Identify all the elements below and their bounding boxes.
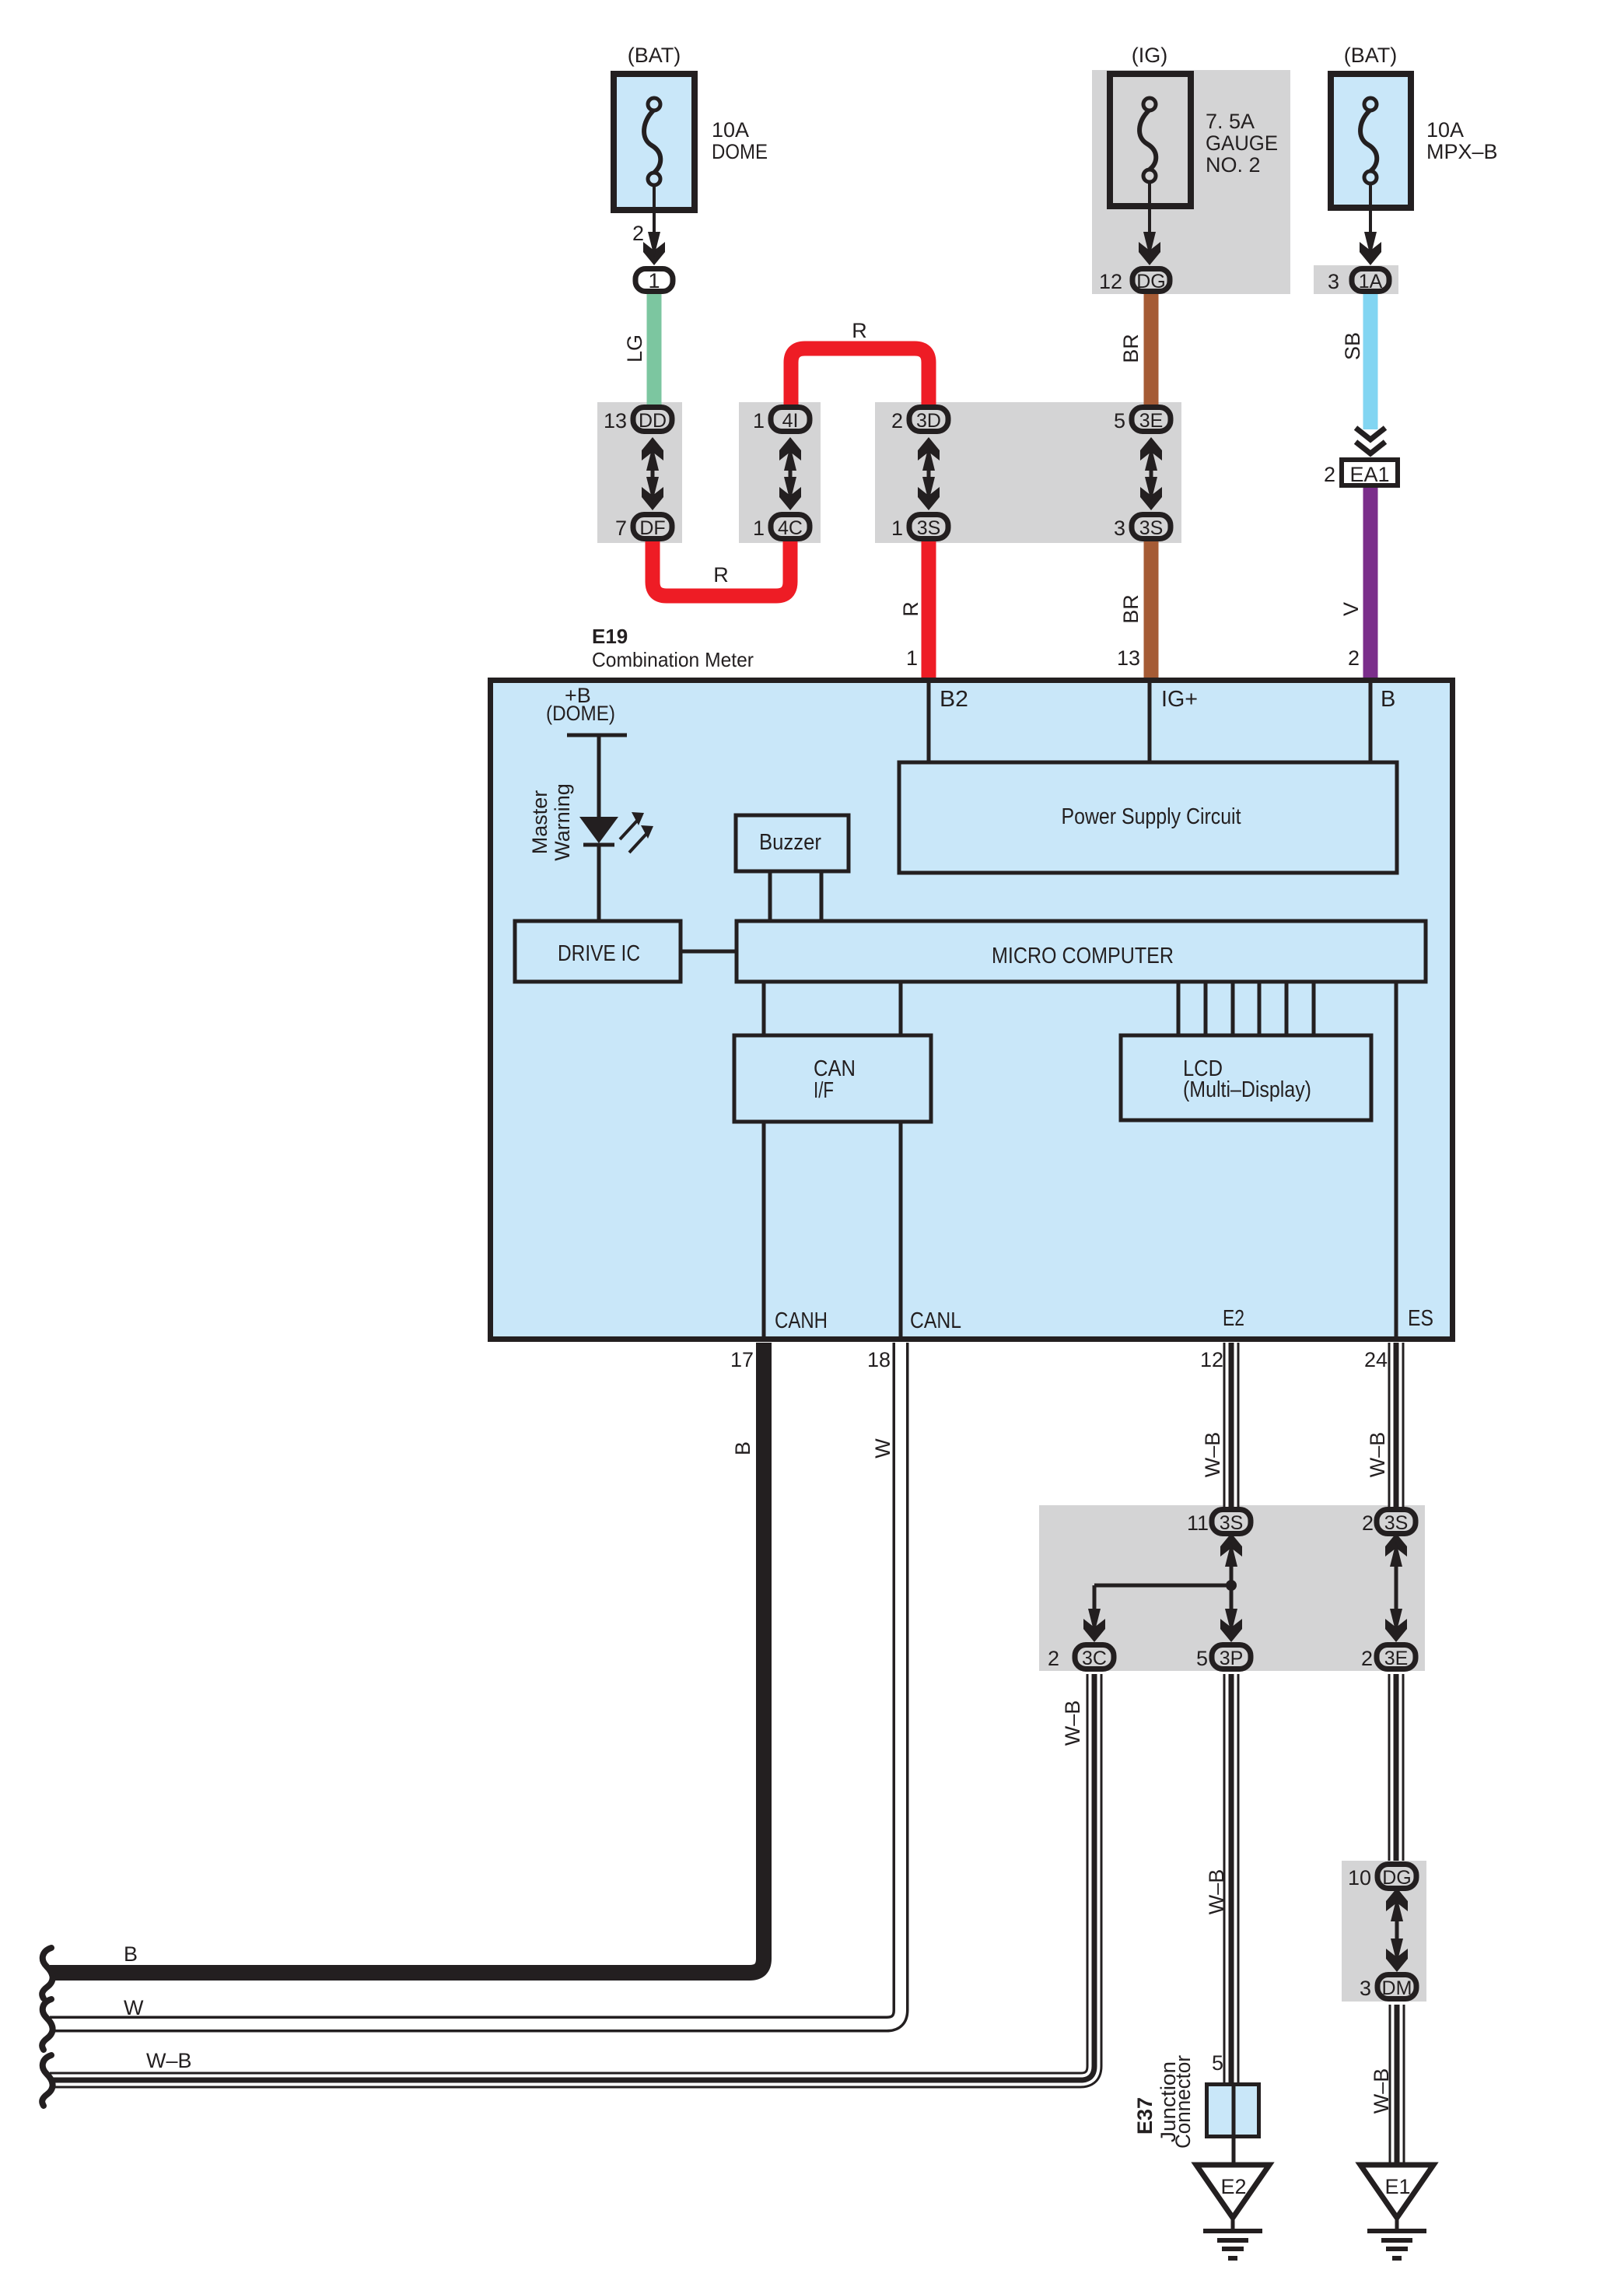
wire W-B 3C down-left [50,1674,1094,2080]
wire BR brown DG to 3E [1144,291,1159,408]
svg-text:Power Supply Circuit: Power Supply Circuit [1062,804,1241,829]
svg-text:13: 13 [604,409,627,433]
svg-text:3C: 3C [1082,1648,1107,1669]
svg-text:B: B [124,1942,138,1966]
svg-text:1: 1 [648,269,660,292]
connector 3S left [909,515,948,540]
wire CANH internal [762,1122,766,1339]
connector 4C [771,515,810,540]
fuse 10A DOME [614,74,695,210]
drive ic box [515,921,681,982]
arrow 3E-3S [1140,437,1162,510]
wire buzzer to micro [768,871,772,921]
connector 1 oval [635,269,673,293]
arrow 3S to 3P with branch to 3C [1083,1533,1242,1642]
svg-text:MICRO COMPUTER: MICRO COMPUTER [992,944,1174,968]
connector 3D [909,408,948,433]
svg-text:3S: 3S [1139,517,1164,539]
svg-text:I/F: I/F [814,1078,834,1103]
svg-text:3S: 3S [917,517,941,539]
connector 3S bottom right [1377,1510,1416,1535]
svg-text:W: W [871,1438,894,1459]
svg-text:2: 2 [891,409,903,433]
svg-text:17: 17 [730,1348,754,1371]
fuse 10A MPX-B [1331,74,1411,208]
svg-text:1: 1 [906,646,918,670]
svg-text:CANH: CANH [775,1308,828,1333]
svg-text:5: 5 [1114,409,1125,433]
svg-text:1: 1 [753,517,765,540]
connector 3C [1075,1645,1114,1670]
connector DM [1377,1975,1416,2000]
svg-text:10A: 10A [712,118,749,142]
svg-text:W–B: W–B [146,2049,192,2072]
svg-text:18: 18 [867,1348,891,1371]
svg-text:MPX–B: MPX–B [1426,140,1498,163]
+B DOME rail [546,684,627,817]
svg-text:13: 13 [1117,646,1140,670]
connector DG top [1132,269,1170,293]
svg-text:4C: 4C [778,517,803,539]
svg-text:W: W [124,1996,144,2019]
arrow DD-DF [642,437,663,510]
ground E1 [1360,2165,1433,2258]
svg-text:3S: 3S [1220,1512,1244,1534]
connector DF [633,515,672,540]
svg-text:BR: BR [1119,334,1143,363]
svg-text:1A: 1A [1359,271,1383,292]
svg-text:2: 2 [1362,1511,1374,1535]
connector EA1 box [1342,460,1398,486]
svg-text:E2: E2 [1223,1306,1244,1331]
squiggle W [42,1999,52,2050]
wire V violet EA1 to meter pin 2 [1363,486,1378,680]
arrow DG-DM [1386,1888,1408,1972]
micro computer box [737,921,1426,982]
svg-text:3: 3 [1328,270,1339,293]
E37 junction connector [1207,2082,1259,2138]
wire ES from micro [1395,982,1398,1339]
ground E2 [1196,2165,1269,2258]
svg-text:7: 7 [615,517,627,540]
svg-text:DF: DF [639,517,665,539]
svg-text:5: 5 [1212,2051,1223,2075]
svg-text:1: 1 [753,409,765,433]
svg-text:DOME: DOME [712,140,768,163]
svg-text:Buzzer: Buzzer [759,830,821,855]
svg-text:E1: E1 [1384,2175,1410,2198]
svg-text:DG: DG [1136,271,1166,292]
svg-text:Combination Meter: Combination Meter [592,648,754,671]
svg-text:W–B: W–B [1366,1432,1389,1478]
svg-text:DD: DD [639,410,667,432]
arrow 3S to 3E right [1385,1533,1407,1642]
panel connector 3D-3S-3E-3S [875,402,1181,543]
svg-text:(IG): (IG) [1132,44,1168,67]
wires micro to lcd [1178,982,1314,1035]
svg-text:2: 2 [632,222,644,245]
label Master Warning [528,783,574,861]
wire W-B ES pin24 [1388,1343,1405,1508]
svg-text:B: B [731,1441,754,1455]
svg-text:W–B: W–B [1201,1432,1224,1478]
chevrons EA1 [1356,428,1385,454]
svg-text:(Multi–Display): (Multi–Display) [1183,1077,1311,1102]
svg-text:3: 3 [1360,1977,1371,2000]
wire SB skyblue 1A to EA1 [1363,291,1378,429]
can if box [734,1035,931,1122]
svg-text:R: R [899,601,922,617]
wire E37 to E2 ground [1232,2138,1236,2165]
svg-text:12: 12 [1099,270,1122,293]
panel connector DD-DF [597,402,682,543]
svg-text:E19: E19 [592,625,628,648]
label Junction Connector [1157,2055,1195,2149]
svg-text:(BAT): (BAT) [1344,44,1398,67]
svg-text:W–B: W–B [1370,2068,1393,2114]
svg-text:1: 1 [891,517,903,540]
svg-text:E2: E2 [1220,2175,1246,2198]
wire fuse DOME to connector 1 [643,185,665,265]
svg-text:5: 5 [1196,1647,1208,1670]
svg-text:3E: 3E [1384,1648,1409,1669]
svg-text:4I: 4I [782,410,799,432]
lcd box [1121,1035,1371,1120]
svg-text:Master: Master [528,790,551,855]
svg-text:2: 2 [1324,463,1335,486]
svg-text:DG: DG [1382,1867,1412,1889]
connector 4I [771,408,810,433]
svg-text:2: 2 [1048,1647,1059,1670]
wire BR brown 3S to meter pin 13 [1144,538,1159,680]
connector 3E bottom [1377,1645,1416,1670]
wire W-B 3E to DG [1388,1674,1405,1861]
svg-text:2: 2 [1361,1647,1373,1670]
power supply circuit box [899,762,1397,873]
arrow 3D-3S [918,437,940,510]
svg-text:2: 2 [1348,646,1360,670]
buzzer box [736,815,849,871]
svg-text:BR: BR [1119,594,1143,624]
svg-text:3P: 3P [1220,1648,1244,1669]
svg-text:12: 12 [1200,1348,1223,1371]
svg-text:IG+: IG+ [1161,687,1198,712]
svg-text:(BAT): (BAT) [628,44,681,67]
fuse 7.5A GAUGE NO.2 [1110,74,1191,206]
wire CANL internal [899,1122,903,1339]
svg-text:3D: 3D [916,410,941,432]
svg-text:3S: 3S [1384,1512,1409,1534]
wire micro to can if right [899,982,903,1035]
wire drive ic to micro [681,950,737,954]
svg-text:W–B: W–B [1205,1869,1228,1915]
LED master warning [579,812,653,921]
svg-text:R: R [852,319,867,342]
svg-text:DM: DM [1382,1977,1412,1999]
svg-text:11: 11 [1187,1511,1209,1535]
svg-text:3: 3 [1114,517,1125,540]
panel fuse IG [1092,70,1290,294]
svg-text:E37: E37 [1133,2097,1157,2135]
panel connector 1A [1314,265,1398,294]
svg-text:B: B [1381,687,1395,712]
svg-text:(DOME): (DOME) [546,702,615,725]
svg-text:EA1: EA1 [1349,463,1389,486]
connector 3E [1132,408,1171,433]
pin line B2 [927,683,931,762]
wire B black CANH [50,1343,764,1973]
svg-text:Connector: Connector [1171,2055,1195,2149]
squiggle B [42,1948,52,1998]
wire fuse IG to DG [1139,182,1160,265]
connector 3S right [1132,515,1171,540]
connector DD [633,408,672,433]
svg-text:CANL: CANL [910,1308,961,1333]
svg-text:7. 5A: 7. 5A [1206,110,1255,133]
combination meter E19 box [491,681,1453,1340]
connector 1A [1352,269,1389,293]
squiggle W-B [42,2055,52,2106]
svg-text:GAUGE: GAUGE [1206,131,1278,155]
svg-text:ES: ES [1408,1306,1433,1331]
connector 3S bottom left [1212,1510,1251,1535]
connector DG bottom [1377,1865,1416,1889]
wire W-B E2 pin12 [1223,1343,1240,1508]
svg-text:V: V [1339,602,1363,616]
connector 3P [1212,1645,1251,1670]
panel connector 3S-3C-3P-3E [1039,1505,1425,1671]
wire R red DF to 4C [653,538,790,596]
svg-text:B2: B2 [940,687,968,712]
wire LG green fuse to DD [647,291,662,408]
wire W-B DM to E1 [1389,2005,1405,2165]
pin line B [1369,683,1373,762]
wire micro to can if left [762,982,766,1035]
svg-text:R: R [713,563,729,587]
svg-text:DRIVE IC: DRIVE IC [558,941,640,966]
svg-text:3E: 3E [1139,410,1164,432]
wire R red 3S to meter pin 1 [922,538,936,680]
svg-text:10: 10 [1348,1866,1371,1889]
svg-text:NO. 2: NO. 2 [1206,153,1261,177]
panel connector 4I-4C [739,402,821,543]
arrow 4I-4C [779,437,801,510]
wire fuse MPX to 1A [1360,184,1381,265]
svg-text:LG: LG [623,334,646,362]
panel connector DG-DM [1342,1861,1426,2002]
wire W-B 3P to E37 [1223,1674,1240,2082]
svg-text:24: 24 [1364,1348,1388,1371]
wire buzzer to micro 2 [820,871,824,921]
svg-text:10A: 10A [1426,118,1464,142]
wire W white CANL [50,1343,901,2024]
svg-text:Warning: Warning [551,783,574,861]
wire R red 4I to 3D [791,348,929,406]
svg-text:W–B: W–B [1061,1700,1084,1746]
pin line IG+ [1148,683,1152,762]
svg-text:SB: SB [1341,332,1364,360]
